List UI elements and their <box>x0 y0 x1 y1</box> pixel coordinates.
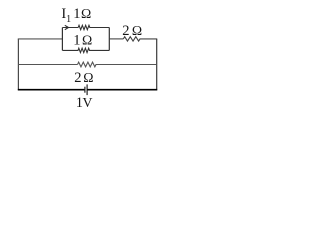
svg-text:2: 2 <box>74 70 81 86</box>
wire bottom rail left segment <box>18 89 85 91</box>
wire left rail <box>17 39 19 90</box>
wire right rail <box>156 39 158 90</box>
label I1 (current in top branch) <box>61 6 71 25</box>
node A (parallel box left edge) <box>61 28 63 51</box>
label 1 ohm (bottom branch resistor value) <box>73 33 92 49</box>
wire top branch with current arrow <box>62 27 78 29</box>
battery V1 positive plate (tall) <box>86 84 88 95</box>
label 2 ohm (series resistor value) <box>122 23 142 39</box>
wire bottom rail right segment <box>87 89 157 91</box>
label 1 ohm (top branch resistor value) <box>73 6 91 22</box>
wire box output segment <box>109 38 123 40</box>
arrowhead I1 <box>65 25 69 29</box>
battery V1 negative plate (short) <box>84 87 86 93</box>
svg-text:2: 2 <box>122 23 129 39</box>
resistor R2 1 ohm (bottom branch zigzag) <box>62 48 109 52</box>
svg-text:Ω: Ω <box>81 6 91 21</box>
svg-text:1: 1 <box>73 6 80 22</box>
resistor R3 2 ohm (top rail zigzag) <box>123 37 157 41</box>
wire top rail left segment <box>18 38 63 40</box>
svg-text:1: 1 <box>73 33 80 49</box>
wire middle rail left segment <box>18 64 77 66</box>
resistor R4 2 ohm (middle rail zigzag) <box>78 62 157 67</box>
svg-text:Ω: Ω <box>132 23 142 38</box>
svg-text:Ω: Ω <box>83 70 93 85</box>
svg-text:1: 1 <box>66 14 71 25</box>
label 2 ohm (middle resistor value) <box>74 70 93 86</box>
label 1 V (battery value) <box>76 95 93 111</box>
resistor R1 1 ohm (top branch zigzag) <box>78 25 109 29</box>
svg-text:V: V <box>83 95 93 110</box>
node B (parallel box right edge) <box>108 28 110 51</box>
svg-text:Ω: Ω <box>82 33 92 48</box>
